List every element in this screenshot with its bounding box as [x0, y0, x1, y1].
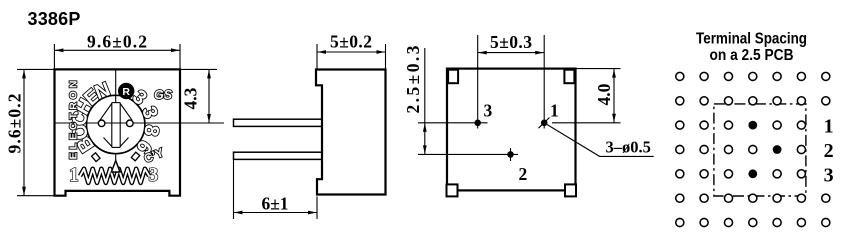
svg-text:4.3: 4.3 [181, 87, 201, 109]
svg-text:2: 2 [824, 140, 834, 162]
svg-text:6±1: 6±1 [261, 194, 288, 214]
svg-text:5±0.2: 5±0.2 [330, 32, 372, 52]
svg-text:3386P: 3386P [28, 9, 81, 29]
svg-text:on a 2.5 PCB: on a 2.5 PCB [709, 46, 793, 64]
svg-text:R: R [122, 86, 130, 98]
svg-text:2: 2 [519, 164, 528, 184]
svg-text:9.6±0.2: 9.6±0.2 [5, 94, 25, 154]
svg-text:4.0: 4.0 [594, 83, 614, 105]
svg-text:1: 1 [824, 116, 834, 138]
svg-text:GS: GS [154, 88, 173, 102]
svg-text:5±0.3: 5±0.3 [490, 32, 532, 52]
svg-text:1: 1 [69, 165, 79, 186]
svg-text:3: 3 [824, 164, 834, 186]
svg-text:3: 3 [149, 165, 159, 186]
svg-text:9.6±0.2: 9.6±0.2 [87, 32, 147, 52]
svg-text:3–ø0.5: 3–ø0.5 [606, 138, 651, 157]
svg-text:3: 3 [484, 101, 493, 121]
svg-text:1: 1 [550, 101, 559, 121]
svg-text:ELECTRON: ELECTRON [68, 81, 80, 160]
